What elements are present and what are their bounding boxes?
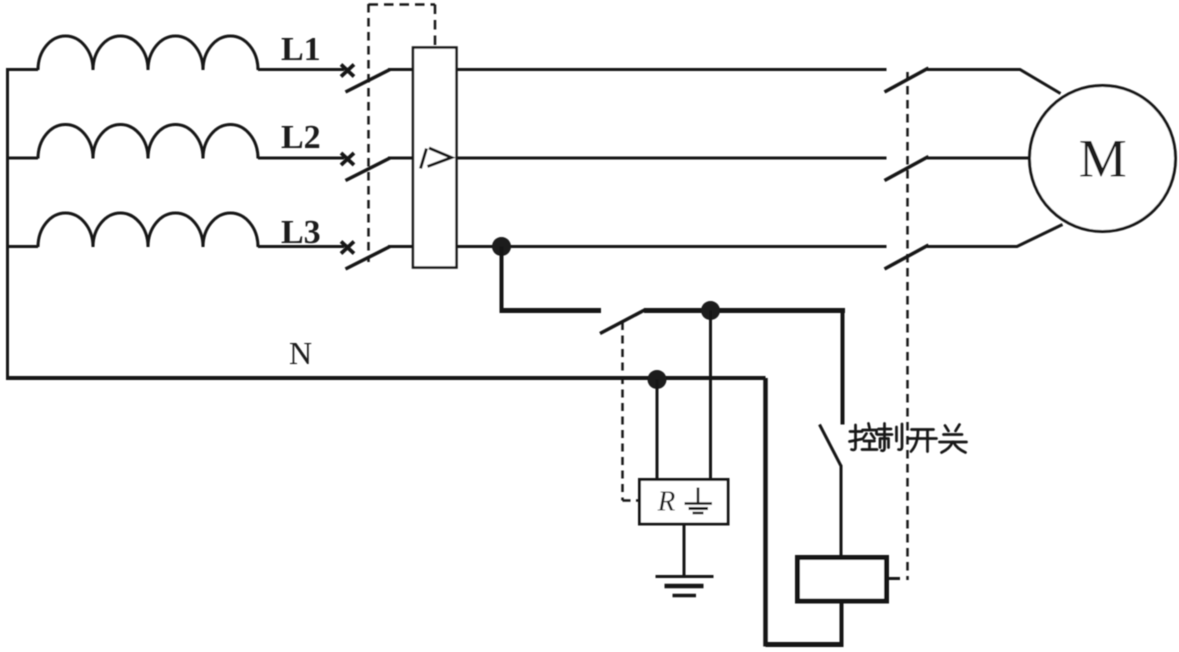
wire L1 contactor to motor: [927, 70, 1061, 94]
left supply bus: [6, 70, 9, 379]
wire L3 stub from bus: [6, 245, 38, 248]
contactor blade KM L2: [885, 157, 929, 181]
contactor blade KM L3: [885, 245, 929, 269]
inductor L2: [38, 125, 258, 159]
earth ground symbol: [656, 577, 714, 596]
contactor coil KM box: [798, 558, 887, 602]
wire L3 relay to contactor: [457, 245, 887, 248]
wire coil bottom down: [840, 601, 844, 645]
wire corner down to control switch: [841, 308, 845, 425]
breaker blade L2: [346, 158, 391, 181]
wire L1 relay to contactor: [457, 68, 887, 71]
wire tap down from L3 node: [500, 247, 504, 311]
wire control node down to relay R: [709, 311, 712, 480]
svg-text:M: M: [1079, 129, 1127, 189]
trip link dashed from switch to relay R: [623, 322, 640, 501]
breaker linkage dashed line: [367, 4, 370, 262]
node on control wire (junction dot): [701, 301, 720, 320]
relay internal earth symbol: [685, 488, 713, 514]
contactor linkage dashed line: [906, 72, 909, 580]
wire L1 blade to relay box: [388, 68, 413, 71]
label L2: [281, 119, 321, 156]
control switch blade: [820, 425, 842, 467]
node on N (junction dot): [648, 370, 667, 389]
node tap on L3 (junction dot): [492, 237, 511, 256]
inductor L3: [38, 213, 258, 247]
trip link dashed to relay top: [369, 5, 436, 48]
breaker pole CB L3 (x contact): [341, 242, 354, 254]
label L1: [281, 31, 321, 68]
neutral wire N: [6, 376, 766, 380]
label L3: [281, 214, 321, 251]
wire L3 contactor to motor: [927, 225, 1063, 247]
inductor L1: [38, 36, 258, 70]
wire relay R to earth: [683, 524, 686, 576]
wire L2 contactor to motor: [927, 157, 1031, 160]
label control switch 控制开关: [850, 424, 967, 453]
svg-text:N: N: [289, 335, 312, 371]
svg-text:R: R: [657, 486, 676, 518]
overcurrent relay I> symbol: [421, 148, 452, 169]
breaker pole CB L1 (x contact): [341, 65, 354, 77]
breaker pole CB L2 (x contact): [341, 153, 354, 165]
wire N node down to relay R: [656, 380, 659, 480]
wire control switch to coil: [840, 465, 843, 558]
wire tap to switch: [500, 308, 602, 313]
wire return up to N: [763, 378, 768, 647]
label N: [289, 335, 312, 371]
svg-text:L1: L1: [281, 31, 321, 68]
wire L1 stub from bus: [6, 68, 38, 71]
motor M1 circle: [1030, 86, 1176, 232]
breaker blade L1: [346, 70, 391, 93]
overcurrent relay U1 box: [413, 48, 457, 268]
residual current relay R box: [640, 480, 729, 525]
motor label M: [1079, 129, 1127, 189]
wire L2 blade to relay box: [388, 157, 413, 160]
contactor blade KM L1: [885, 68, 929, 92]
wire bottom return: [766, 642, 844, 647]
isolating switch blade S1: [600, 310, 646, 334]
wire L1 to breaker: [258, 68, 344, 71]
wire L2 stub from bus: [6, 157, 38, 160]
wire L2 relay to contactor: [457, 157, 887, 160]
wire L3 blade to relay box: [388, 245, 413, 248]
wire L2 to breaker: [258, 157, 344, 160]
wire L3 to breaker: [258, 245, 344, 248]
breaker blade L3: [346, 247, 391, 270]
svg-text:L2: L2: [281, 119, 321, 156]
relay label R: [657, 486, 676, 518]
wire switch to corner: [644, 308, 845, 313]
coil link stub to dashed line: [887, 577, 900, 580]
